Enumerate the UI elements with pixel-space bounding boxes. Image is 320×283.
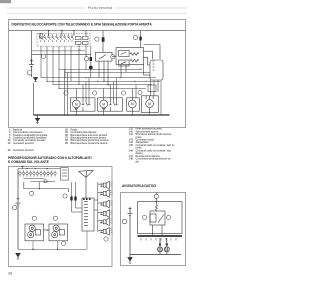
ground (battery negative) bbox=[34, 78, 38, 82]
wires: actuator returns to ground bus bbox=[76, 111, 149, 115]
svg-text:DISPOSITIVO BLOCCAPORTE CON TE: DISPOSITIVO BLOCCAPORTE CON TELECOMANDO … bbox=[12, 23, 153, 27]
wires: fuse row interlinks bbox=[24, 179, 56, 183]
svg-text:M: M bbox=[102, 102, 105, 106]
wires: ignition feeds 30/50 with connectors bbox=[31, 46, 90, 78]
wire: left vertical to bottom ground bus bbox=[32, 83, 34, 115]
battery 1 (radio panel) bbox=[16, 169, 21, 250]
relay housing box (avvisatori) bbox=[138, 202, 183, 234]
svg-text:M: M bbox=[148, 102, 151, 106]
control unit 66 (centralina bloccaporte) bbox=[116, 31, 144, 78]
wire: supply bus + feed arrow bbox=[18, 166, 61, 169]
header mid rule bbox=[7, 7, 187, 9]
motor M labels bbox=[75, 102, 151, 107]
ground (main diagram) bbox=[35, 115, 39, 124]
wires: actuator feeders bbox=[65, 70, 161, 116]
svg-text:Punto benzina: Punto benzina bbox=[88, 6, 113, 10]
relay 135 (relè avvisatori) bbox=[150, 211, 165, 225]
radio connector 65 bbox=[82, 198, 94, 231]
svg-text:146: 146 bbox=[129, 149, 134, 153]
svg-text:148: 148 bbox=[129, 157, 134, 161]
ground (radio panel) bbox=[16, 253, 20, 259]
svg-text:141: 141 bbox=[129, 132, 134, 136]
wire: feed with node A bbox=[155, 193, 157, 205]
svg-text:38: 38 bbox=[8, 272, 12, 276]
svg-text:E COMANDI SUL VOLANTE: E COMANDI SUL VOLANTE bbox=[8, 160, 50, 164]
svg-text:Connettore predisposizione ra-: Connettore predisposizione ra- bbox=[136, 157, 172, 161]
wire: mid horizontal link bbox=[24, 182, 69, 192]
connector pins under bus bbox=[141, 238, 176, 241]
svg-text:Avvisatori acustici: Avvisatori acustici bbox=[13, 141, 34, 145]
fuse box 6 (ausiliaria) bbox=[61, 168, 69, 180]
header rule bbox=[7, 13, 187, 15]
wires: ground bus (radio panel) bbox=[18, 231, 87, 250]
svg-text:Bloccaportiera posteriore dest: Bloccaportiera posteriore destra bbox=[71, 141, 108, 145]
battery 1 bbox=[29, 59, 34, 77]
connectors (black blobs) bbox=[70, 197, 72, 201]
ground bus (bottom) bbox=[33, 114, 169, 116]
svg-text:30: 30 bbox=[79, 49, 81, 51]
antenna symbol bbox=[79, 170, 94, 198]
ground (horn panel) bbox=[128, 255, 132, 264]
switch: door open sensor (spia porta) bbox=[96, 31, 113, 85]
svg-text:dio: dio bbox=[136, 159, 140, 163]
node label 1 (batteria) bbox=[27, 71, 32, 76]
node labels 86-89 bbox=[64, 90, 142, 95]
corner smudge (scan artifact) bbox=[0, 0, 11, 3]
svg-text:AVVISATORI ACUSTICI: AVVISATORI ACUSTICI bbox=[122, 184, 156, 188]
receiver 141 (ricevitore telecomando) + wiring bbox=[112, 45, 163, 81]
wire: battery feed vertical bbox=[30, 31, 32, 65]
steering wheel controls 145/146 bbox=[25, 224, 68, 241]
svg-text:145: 145 bbox=[129, 143, 134, 147]
wires: fuse box outputs down to harness bbox=[41, 45, 86, 89]
resistor 147 (limitatrice) bbox=[155, 205, 157, 211]
svg-text:M: M bbox=[75, 102, 78, 106]
battery 1 (horn panel) bbox=[128, 207, 133, 255]
wires: harness bundle horizontals bbox=[41, 70, 160, 89]
wires: drops from bus into fuse box bbox=[48, 31, 50, 37]
fuse box 5 (scatola portafusibili) bbox=[37, 33, 90, 46]
main schematic panel frame bbox=[9, 20, 186, 128]
actuators 86-89 (bloccaportiere) bbox=[148, 85, 156, 92]
radio panel frame bbox=[9, 167, 113, 267]
title underline bbox=[9, 30, 186, 32]
svg-text:Avvisatori acustici: Avvisatori acustici bbox=[13, 148, 34, 152]
horns 33 (avvisatori acustici) bbox=[130, 238, 181, 255]
nodes: junctions on bus bbox=[48, 30, 75, 32]
svg-text:M: M bbox=[131, 102, 134, 106]
relays inside fuse box bbox=[76, 37, 89, 45]
